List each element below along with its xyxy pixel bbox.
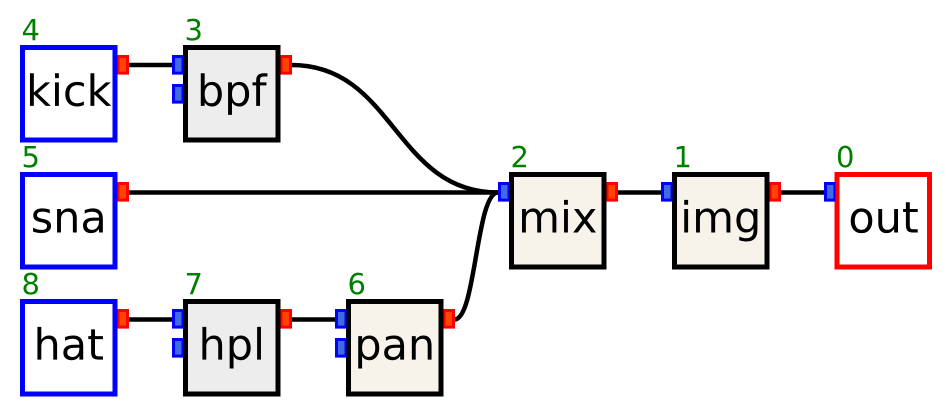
sna box xyxy=(23,175,116,268)
node bpf (index 3) xyxy=(172,19,292,140)
wire img->out xyxy=(776,190,830,195)
out input port xyxy=(824,182,836,202)
node hpl (index 7) xyxy=(172,273,292,394)
hat number 8 xyxy=(23,273,38,295)
img input port xyxy=(661,182,673,202)
hpl number 7 xyxy=(187,273,201,294)
wire sna->mix xyxy=(124,190,504,195)
hat output port xyxy=(118,309,130,329)
sna number 5 xyxy=(24,146,38,168)
wire kick->bpf xyxy=(124,63,178,68)
img label xyxy=(684,200,757,242)
wire pan->mix (up curve) xyxy=(449,193,503,320)
hpl box xyxy=(186,302,279,395)
node hat (index 8) xyxy=(23,273,130,394)
node sna (index 5) xyxy=(23,146,130,267)
bpf output port xyxy=(281,55,293,75)
wire hpl->pan xyxy=(287,317,341,322)
pan box xyxy=(349,302,442,395)
wire hat->hpl xyxy=(124,317,178,322)
node pan (index 6) xyxy=(335,273,455,394)
out label xyxy=(851,202,918,233)
pan label xyxy=(358,336,431,369)
wire bpf->mix (S-curve) xyxy=(286,65,503,193)
bpf input port 1 xyxy=(172,55,184,75)
kick label xyxy=(30,73,111,106)
bpf number 3 xyxy=(187,19,201,41)
pan input port 2 xyxy=(335,338,347,358)
kick output port xyxy=(118,55,130,75)
mix number 2 xyxy=(513,146,526,168)
sna output port xyxy=(118,182,130,202)
mix box xyxy=(512,175,605,268)
node kick (index 4) xyxy=(23,19,130,140)
img output port xyxy=(770,182,782,202)
bpf box xyxy=(186,48,279,141)
sna label xyxy=(33,208,103,233)
bpf input port 2 xyxy=(172,84,184,104)
kick box xyxy=(23,48,116,141)
out number 0 xyxy=(838,146,853,168)
mix label xyxy=(522,200,596,233)
hat label xyxy=(37,327,103,360)
out box xyxy=(837,175,930,268)
node out (index 0) xyxy=(824,146,930,267)
node mix (index 2) xyxy=(498,146,618,267)
hpl input port 1 xyxy=(172,309,184,329)
img number 1 xyxy=(677,146,690,167)
wire mix->img xyxy=(613,190,667,195)
kick number 4 xyxy=(23,19,38,40)
hpl input port 2 xyxy=(172,338,184,358)
hpl output port xyxy=(281,309,293,329)
hat box xyxy=(23,302,116,395)
bpf label xyxy=(201,73,268,115)
pan number 6 xyxy=(350,273,365,295)
node img (index 1) xyxy=(661,146,781,267)
mix output port xyxy=(607,182,619,202)
img box xyxy=(675,175,768,268)
pan output port xyxy=(444,309,456,329)
pan input port 1 xyxy=(335,309,347,329)
mix input port xyxy=(498,182,510,202)
hpl label xyxy=(202,327,261,369)
